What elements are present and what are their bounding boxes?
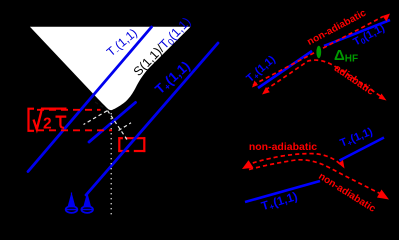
- filled arrowhead lower-left end of adiabatic path: [262, 87, 270, 95]
- red dashed adiabatic path R2 with bend: [266, 60, 385, 98]
- label T-(1,1) on white: [104, 26, 141, 60]
- big arrowhead lower right of beta: [377, 190, 389, 200]
- double-dot symbol: right up arrow: [84, 193, 91, 207]
- white dashed diabatic line right branch into red box: [108, 111, 128, 140]
- double-dot symbol: left ellipse: [66, 206, 78, 213]
- small arrowhead right end of alpha: [339, 160, 345, 169]
- double-dot symbol: right ellipse: [81, 206, 93, 213]
- small arrowhead left end of R1: [252, 81, 258, 88]
- blue diabatic line right segment: [324, 20, 390, 46]
- blue label T+(1,1) below lower-left segment: [260, 189, 300, 214]
- green gap marker ellipse: [316, 46, 321, 58]
- label sqrt(2)tau red: radical with vinculum: [34, 109, 67, 130]
- white dotted vertical detuning line: [110, 113, 112, 215]
- red label adiabatic rotated: [332, 62, 377, 97]
- svg-text:non-adiabatic: non-adiabatic: [249, 141, 317, 153]
- double-dot symbol: right horizontal diameter: [81, 209, 93, 211]
- blue label T+(1,1) above upper-right segment: [338, 126, 375, 151]
- label S(1,1)/T0(1,1) along funnel right edge: [131, 15, 194, 80]
- red bracket left bar with feet: [29, 109, 35, 131]
- double-dot symbol: left horizontal diameter: [66, 209, 78, 211]
- line T+ (1,1) long lower level L2 going to double-dot symbol: [86, 43, 218, 195]
- line T- (1,1) upper level L1: [28, 27, 152, 172]
- left arrowhead of alpha: [242, 160, 254, 169]
- red dashed curve alpha over hump to left arrow: [246, 154, 340, 166]
- double-dot symbol: left up arrow: [68, 193, 75, 207]
- red dashed upper level line of sqrt(2)t bracket: [37, 109, 101, 111]
- blue segment lower-left: [245, 181, 320, 202]
- red label non-adiabatic rotated lower right: [316, 171, 377, 215]
- red dashed curve beta under hump to right arrow: [249, 160, 380, 194]
- red label non-adiabatic rotated top: [306, 7, 369, 47]
- blue label T+(1,1) left of top panel: [244, 53, 278, 85]
- red box marking S-T+ crossing: [118, 137, 145, 152]
- red dashed lower level line of sqrt(2)t bracket: [37, 129, 112, 131]
- short middle blue line under funnel bottom (Lmid): [89, 102, 136, 142]
- small arrowhead right end of adiabatic path: [379, 94, 387, 101]
- svg-text:2: 2: [43, 116, 52, 133]
- blue diabatic line left segment: [258, 51, 312, 88]
- red dashed non-adiabatic straight path R1: [253, 17, 383, 86]
- white dashed diabatic line left branch: [84, 111, 108, 125]
- white funnel region (S(1,1)/S(0,2) anticrossing branch): [30, 27, 191, 110]
- blue label T0(1,1) right of top panel: [351, 22, 387, 50]
- label T+(1,1) bold on black: [152, 58, 193, 98]
- blue segment upper-right: [340, 138, 385, 161]
- arrowhead of non-adiabatic path top right: [383, 14, 391, 22]
- black dashed diabatic segment over white funnel: [95, 102, 107, 110]
- white dashed short segment right of middle line: [119, 123, 132, 131]
